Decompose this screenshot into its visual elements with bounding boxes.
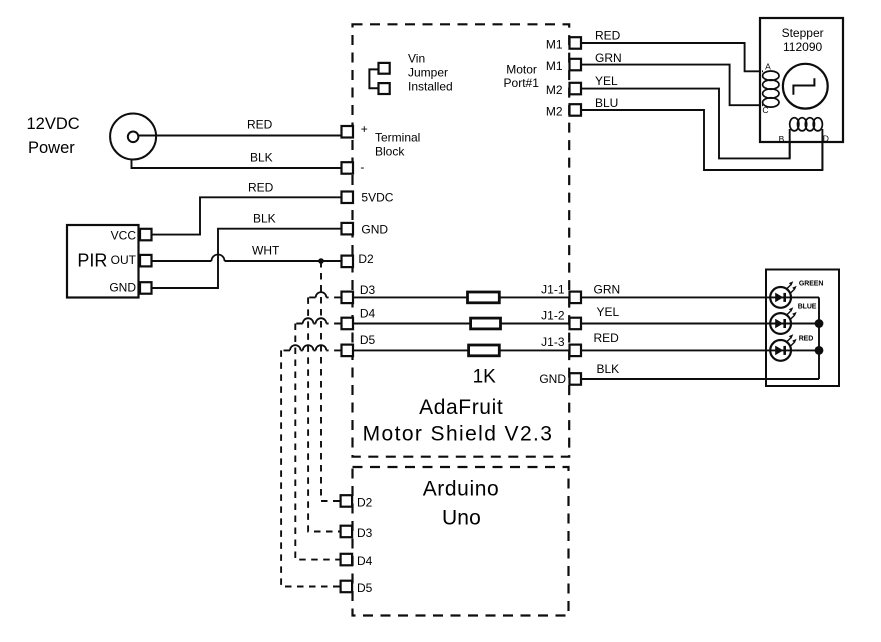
svg-text:BLU: BLU — [595, 96, 618, 110]
svg-text:D2: D2 — [357, 495, 373, 509]
svg-text:M1: M1 — [546, 37, 563, 51]
svg-text:Block: Block — [375, 145, 405, 159]
svg-text:5VDC: 5VDC — [361, 191, 393, 205]
svg-text:Port#1: Port#1 — [504, 76, 540, 90]
svg-text:OUT: OUT — [111, 253, 137, 267]
svg-text:D3: D3 — [357, 526, 373, 540]
svg-text:M2: M2 — [546, 104, 563, 118]
svg-text:Stepper: Stepper — [782, 26, 824, 40]
svg-text:C: C — [762, 105, 768, 115]
svg-text:D5: D5 — [360, 333, 376, 347]
svg-text:Vin: Vin — [408, 52, 425, 66]
svg-text:D4: D4 — [360, 307, 376, 321]
svg-text:12VDC: 12VDC — [27, 115, 80, 133]
svg-text:Motor Shield V2.3: Motor Shield V2.3 — [363, 423, 554, 446]
svg-text:A: A — [765, 62, 771, 72]
svg-text:+: + — [361, 122, 368, 136]
svg-text:RED: RED — [247, 117, 273, 131]
svg-text:J1-1: J1-1 — [541, 283, 565, 297]
svg-text:Jumper: Jumper — [408, 66, 448, 80]
svg-text:112090: 112090 — [783, 40, 822, 54]
svg-text:WHT: WHT — [252, 244, 280, 258]
svg-text:D4: D4 — [357, 554, 373, 568]
svg-text:VCC: VCC — [111, 228, 137, 242]
svg-text:D: D — [823, 134, 829, 144]
svg-text:PIR: PIR — [77, 251, 107, 271]
svg-text:Uno: Uno — [442, 507, 481, 530]
svg-text:M2: M2 — [546, 83, 563, 97]
svg-text:GRN: GRN — [594, 283, 621, 297]
svg-text:GND: GND — [109, 281, 136, 295]
svg-text:BLK: BLK — [250, 150, 273, 164]
svg-text:Terminal: Terminal — [375, 130, 420, 144]
svg-text:BLUE: BLUE — [798, 303, 817, 310]
svg-text:J1-3: J1-3 — [541, 335, 565, 349]
svg-text:D5: D5 — [357, 581, 373, 595]
svg-text:Motor: Motor — [506, 63, 537, 77]
svg-text:M1: M1 — [546, 59, 563, 73]
svg-text:YEL: YEL — [595, 74, 618, 88]
svg-text:GND: GND — [361, 222, 388, 236]
svg-text:GREEN: GREEN — [799, 281, 823, 288]
svg-text:Installed: Installed — [408, 80, 453, 94]
svg-text:RED: RED — [595, 28, 621, 42]
svg-text:BLK: BLK — [253, 212, 276, 226]
svg-text:RED: RED — [799, 336, 814, 343]
svg-text:GND: GND — [539, 372, 566, 386]
svg-text:B: B — [779, 134, 785, 144]
svg-text:BLK: BLK — [597, 362, 620, 376]
svg-text:YEL: YEL — [597, 305, 620, 319]
svg-text:-: - — [360, 160, 364, 174]
svg-text:RED: RED — [248, 180, 274, 194]
svg-text:Arduino: Arduino — [423, 478, 500, 501]
svg-text:1K: 1K — [473, 367, 497, 388]
svg-text:RED: RED — [594, 331, 620, 345]
svg-text:Power: Power — [28, 139, 75, 157]
svg-text:AdaFruit: AdaFruit — [419, 396, 503, 419]
svg-text:D3: D3 — [360, 283, 376, 297]
svg-text:GRN: GRN — [595, 51, 622, 65]
svg-text:J1-2: J1-2 — [541, 308, 565, 322]
svg-text:D2: D2 — [358, 252, 374, 266]
